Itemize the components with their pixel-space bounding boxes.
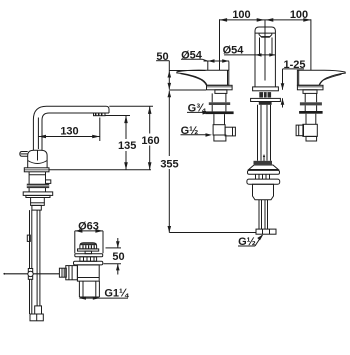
svg-text:G½: G½ — [238, 236, 256, 248]
svg-text:Ø63: Ø63 — [78, 221, 99, 233]
svg-text:100: 100 — [290, 9, 308, 21]
svg-text:135: 135 — [118, 140, 136, 152]
svg-text:50: 50 — [112, 251, 124, 263]
svg-text:G¾: G¾ — [188, 103, 207, 115]
svg-text:1-25: 1-25 — [283, 59, 305, 71]
svg-text:Ø54: Ø54 — [223, 45, 245, 57]
svg-text:355: 355 — [160, 158, 178, 170]
svg-text:50: 50 — [156, 51, 168, 63]
svg-text:G½: G½ — [181, 125, 199, 137]
svg-text:160: 160 — [141, 135, 159, 147]
svg-text:Ø54: Ø54 — [181, 49, 203, 61]
svg-text:G1¼: G1¼ — [104, 287, 129, 299]
svg-text:130: 130 — [60, 126, 78, 138]
svg-text:100: 100 — [232, 9, 250, 21]
